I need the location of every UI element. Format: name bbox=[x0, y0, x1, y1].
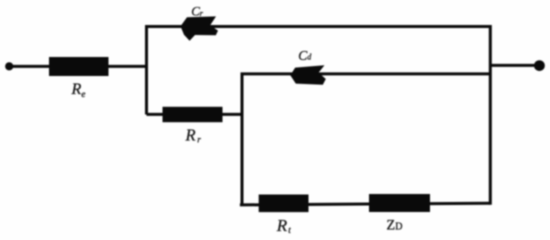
svg-text:D: D bbox=[395, 221, 402, 232]
svg-text:R: R bbox=[71, 81, 82, 98]
svg-text:R: R bbox=[185, 126, 196, 145]
svg-text:R: R bbox=[276, 216, 288, 235]
svg-text:e: e bbox=[81, 89, 85, 99]
svg-text:d: d bbox=[307, 52, 312, 61]
svg-text:r: r bbox=[200, 8, 204, 18]
svg-text:r: r bbox=[197, 134, 201, 144]
svg-text:Z: Z bbox=[386, 218, 395, 234]
svg-text:t: t bbox=[288, 225, 291, 235]
